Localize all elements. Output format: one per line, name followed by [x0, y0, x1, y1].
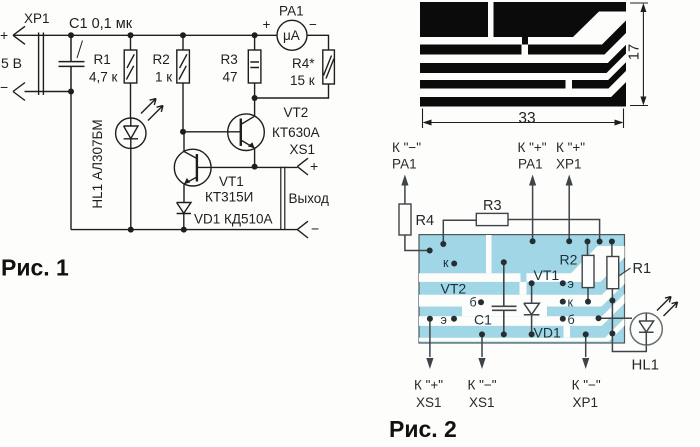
svg-text:R3: R3	[221, 52, 238, 67]
wire arrow XS1+	[429, 319, 431, 357]
wire VT1 base to XS1	[197, 166, 297, 168]
svg-text:К "−": К "−"	[572, 378, 601, 393]
foil gap band2	[522, 45, 529, 55]
wires Рис.2	[405, 185, 646, 358]
svg-text:Выход: Выход	[289, 191, 330, 206]
board strip4	[419, 318, 625, 341]
wire HL1 bottom U	[612, 334, 646, 352]
resistor R4	[323, 50, 335, 84]
VT1 emitter	[184, 177, 197, 203]
connector XS1 body lines	[281, 167, 285, 230]
svg-text:XS1: XS1	[290, 142, 316, 157]
svg-text:+: +	[0, 27, 8, 43]
LED HL1 circle	[116, 118, 146, 148]
foil strip4	[420, 71, 626, 97]
arrowheads Рис.2	[401, 175, 589, 370]
svg-text:47: 47	[223, 70, 238, 85]
svg-text:С1 0,1 мк: С1 0,1 мк	[69, 16, 133, 32]
R1 pointer	[620, 268, 631, 276]
svg-text:Рис. 1: Рис. 1	[1, 255, 69, 281]
board strip2	[419, 272, 625, 306]
board slot band4	[564, 326, 571, 338]
svg-text:R2: R2	[560, 252, 578, 268]
svg-text:R4*: R4*	[292, 56, 315, 71]
labels Рис.2 outside	[392, 140, 659, 410]
svg-text:HL1: HL1	[632, 357, 660, 374]
svg-text:КТ315И: КТ315И	[205, 190, 253, 205]
wire HL1 left	[599, 317, 633, 319]
foil white slot	[488, 2, 494, 41]
svg-text:5 В: 5 В	[1, 55, 22, 71]
VT1 collector	[184, 132, 197, 159]
wire second rail	[25, 91, 72, 93]
board strip3	[419, 294, 625, 326]
transistor VT1 base bar	[196, 154, 198, 182]
svg-text:VT2: VT2	[441, 281, 467, 297]
svg-text:R4: R4	[416, 213, 435, 229]
wire VT2 base	[183, 131, 241, 133]
connector XP1 pin +	[13, 26, 25, 44]
connector XP1 pin -	[13, 83, 25, 101]
dimension 17	[630, 3, 648, 106]
foil strip3	[420, 54, 626, 81]
svg-text:Рис. 2: Рис. 2	[389, 416, 457, 442]
svg-text:VD1: VD1	[534, 325, 561, 341]
wire HL1 cathode to bottom rail	[130, 148, 132, 229]
svg-text:−: −	[311, 221, 319, 237]
wire bottom rail	[71, 229, 297, 231]
svg-text:15 к: 15 к	[290, 73, 315, 88]
svg-text:к: к	[443, 256, 449, 270]
svg-text:+: +	[263, 17, 271, 32]
resistor R4 on board	[399, 204, 411, 235]
VT2 collector	[241, 98, 255, 125]
resistor R2 on board	[582, 255, 594, 287]
labels Рис.2 board	[441, 252, 578, 341]
resistor R2	[182, 35, 184, 50]
LED HL1 on board	[630, 313, 662, 345]
svg-text:РА1: РА1	[392, 157, 417, 172]
svg-text:б: б	[470, 296, 477, 310]
C1 label pointer	[77, 41, 83, 59]
resistor R3	[254, 35, 256, 50]
svg-text:VT1: VT1	[534, 267, 560, 283]
svg-text:VT2: VT2	[284, 105, 309, 120]
foil strip2	[420, 33, 626, 63]
svg-text:С1: С1	[474, 312, 492, 328]
svg-text:б: б	[568, 313, 575, 327]
LED HL1 light arrows	[141, 99, 163, 121]
wire R1 leads	[611, 242, 614, 334]
foil strip1 left	[420, 37, 522, 45]
svg-text:R3: R3	[483, 198, 502, 214]
labels Рис.1	[0, 4, 329, 237]
resistor R3 on board	[476, 213, 508, 225]
svg-text:VT1: VT1	[219, 174, 244, 189]
VT2 emitter	[241, 140, 255, 167]
HL1 light arrows	[657, 297, 678, 317]
wire top rail	[13, 34, 277, 36]
svg-text:4,7 к: 4,7 к	[89, 70, 118, 85]
wire R2 leads	[587, 242, 590, 302]
svg-text:+: +	[310, 158, 318, 174]
diode VD1	[177, 203, 191, 230]
svg-text:К "+": К "+"	[414, 378, 443, 393]
board white patch C1	[462, 307, 547, 317]
svg-text:ХР1: ХР1	[556, 157, 582, 172]
wire left drop	[70, 92, 72, 230]
svg-text:33: 33	[518, 110, 535, 127]
svg-text:ХР1: ХР1	[573, 395, 599, 410]
svg-text:ХР1: ХР1	[24, 11, 50, 26]
svg-text:РА1: РА1	[518, 157, 543, 172]
svg-text:XS1: XS1	[469, 395, 495, 410]
svg-text:КТ630А: КТ630А	[272, 125, 320, 140]
op PA1 meter circle	[277, 20, 307, 50]
svg-text:R1: R1	[633, 261, 652, 277]
connector XS1 pin -	[297, 221, 308, 238]
board gap band2	[520, 282, 527, 295]
junction dots Рис.1	[68, 32, 258, 232]
board strip1 right + wedge	[527, 246, 625, 282]
svg-text:−: −	[309, 17, 317, 32]
dimension 33	[423, 109, 624, 129]
svg-text:к: к	[568, 296, 574, 310]
connector XP1 body lines	[39, 33, 44, 96]
LED HL1 diode	[124, 118, 138, 148]
connector XS1 pin +	[297, 158, 308, 175]
pads (dots) on board	[427, 238, 616, 337]
svg-text:К "+": К "+"	[518, 140, 547, 155]
board strip1 left	[419, 273, 521, 282]
svg-text:−: −	[0, 79, 8, 95]
svg-text:R1: R1	[94, 52, 111, 67]
wire arrow XP1-	[585, 334, 587, 357]
svg-text:К "+": К "+"	[556, 140, 585, 155]
wire R3 right	[508, 220, 600, 242]
wire PA1 to R4 top	[307, 35, 329, 50]
wire arrow PA1+	[532, 185, 534, 242]
foil strip1 right + wedge	[528, 12, 626, 45]
wire arrow XP1+	[568, 185, 570, 242]
wire arrow XS1-	[481, 334, 483, 357]
svg-text:μА: μА	[283, 28, 300, 43]
svg-text:К "−": К "−"	[392, 140, 421, 155]
svg-text:HL1 АЛ307БМ: HL1 АЛ307БМ	[90, 119, 105, 208]
transistor VT2 base bar	[240, 119, 242, 146]
capacitor C1	[59, 35, 85, 91]
svg-text:К "−": К "−"	[468, 378, 497, 393]
board	[419, 235, 625, 343]
transistor VT2 circle	[228, 114, 265, 151]
foil slot band4	[566, 80, 573, 89]
svg-text:VD1 КД510А: VD1 КД510А	[194, 212, 273, 227]
capacitor C1 on board	[492, 262, 517, 334]
wire R3 left	[443, 220, 476, 244]
resistor R1	[130, 35, 132, 50]
svg-text:э: э	[441, 313, 447, 327]
svg-text:XS1: XS1	[416, 395, 442, 410]
svg-text:17: 17	[626, 44, 642, 60]
resistor R1 on board	[607, 257, 619, 289]
foil copper background	[420, 2, 626, 107]
svg-text:э: э	[568, 277, 574, 291]
svg-text:1 к: 1 к	[155, 70, 172, 85]
svg-text:РА1: РА1	[279, 4, 304, 19]
board slot	[486, 235, 492, 273]
transistor VT1 circle	[174, 149, 211, 186]
diode VD1 on board	[524, 283, 540, 334]
svg-text:R2: R2	[153, 52, 170, 67]
wire R4 leads	[405, 185, 430, 251]
